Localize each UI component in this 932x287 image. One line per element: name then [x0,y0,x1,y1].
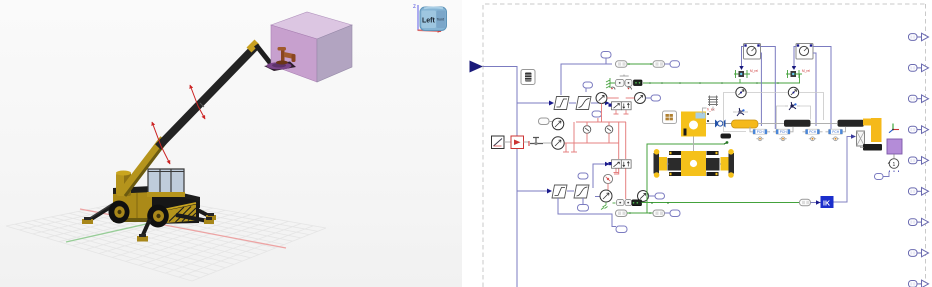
wheel node W4 [834,137,838,141]
connector oval g7o [655,193,665,199]
boom jib [256,45,271,64]
front wheel [147,205,169,228]
hand lever L1 [530,138,543,144]
wire S3 down to oval c4 [558,198,616,227]
directional valve DV1 [612,102,622,110]
ground body GBOX [887,139,902,154]
arrow into block S3 [547,189,552,194]
output port P2 [909,64,929,72]
wire G2 red [626,97,635,99]
outrigger rear-left arm [88,206,112,221]
outrigger front-left foot [137,236,148,242]
swash actuator JA2 [790,104,793,107]
cab sill [147,192,185,197]
diagram background [462,0,932,287]
green Y axis line [66,211,204,242]
vehicle chassis block VC1 [681,151,706,176]
output port P8 [909,249,929,257]
connector oval a1 [601,52,611,59]
filter block S4 [574,185,589,198]
speed gauge SG1 [736,87,746,97]
svg-text:M_rel: M_rel [802,69,810,73]
wire b2-b3 [665,63,671,65]
operator cab [148,169,184,194]
check valve CV2 [605,126,613,134]
output port P7 [909,218,929,226]
subsystem outline left col [724,93,789,132]
red wire lower row [566,118,626,159]
wheel motor M2 [796,44,813,60]
IK gain block [821,196,834,208]
tank symbol TK2 [613,202,616,204]
chassis front black face [152,192,199,224]
wire green b1-b2 [627,63,653,65]
wire L1-G3 [543,142,551,144]
filter block S2 [576,97,591,110]
svg-text:Left: Left [422,18,436,25]
data table block T1 [521,70,535,85]
wire R1-R2 [504,141,511,143]
red wire G1 to DV1 [602,98,619,122]
transfer oval b2 [653,61,665,68]
chassis black deck [113,186,200,208]
svg-text:M_rel: M_rel [750,69,758,73]
outrigger rear-right arm [188,205,211,217]
swash actuator JA1 [738,110,741,113]
svg-text:h_ex: h_ex [707,108,715,112]
boom lower yellow section [122,139,164,194]
force arrow pair 2 [190,85,198,106]
rotation gauge RG1 [889,159,899,169]
wheel node W2 [781,137,785,141]
DV1 tank stubs [614,110,629,114]
brake line bar LB1 [784,120,811,127]
check symbols under V1 [611,87,632,90]
purple box top face [271,12,352,39]
pm motor block V1m [634,80,643,86]
connector oval s3b [578,205,589,212]
output port P5 [909,157,929,165]
connector oval g2o [651,95,661,101]
svg-text:IK: IK [823,200,830,207]
connector oval s2a [583,82,593,88]
red wire DV2 to G5 [614,169,626,200]
wire HX to pump [703,107,714,115]
supply line LB [706,123,867,125]
wire IK up right [834,137,852,203]
svg-text:z: z [413,4,416,10]
3D view background [0,0,462,287]
pressure hose PCH2 [776,129,790,134]
output port P4 [909,126,929,134]
wire g4a-G4 [549,121,552,123]
diagram dashed border [483,4,926,287]
ground grid [6,197,326,281]
axes triad icon [892,124,894,130]
green vertical spine [646,144,648,214]
connector oval c4 [616,226,627,233]
left track bar [654,153,660,174]
speed gauge SG2 [788,87,798,97]
view cube z axis [417,5,419,30]
brake valve BV1 [734,73,750,75]
subsystem outline right col [777,93,824,132]
basket [281,49,285,62]
outrigger rear-right foot [206,215,216,220]
main pump MP1 [681,112,706,137]
wheel node W1 [758,137,762,141]
connector oval rgo [875,174,884,180]
green wire to vehicle [647,143,725,145]
wheel motor M1 [744,44,761,60]
ramp source R1 [492,136,505,149]
view cube x axis [418,30,442,31]
green wire c1-c2 [627,212,653,214]
transfer oval b1 [616,61,628,68]
transfer oval c1 [616,210,628,217]
brake valve BV2 [786,73,802,75]
wire G2 to oval [646,97,652,99]
red X axis line [80,209,286,248]
connector oval s2b [592,111,602,117]
platform rotator disk [264,62,296,72]
directional valve DV2 [612,160,622,168]
output port P9 [909,280,929,287]
tank block TB1 [863,144,882,151]
chassis left yellow face [113,192,152,221]
wire c2-c3 [665,212,671,214]
wire S3-S4 [567,190,574,192]
boom turret [116,172,131,196]
purple box front face [271,25,317,82]
pressure gauge G6 [600,190,612,202]
hose stubs [750,127,846,132]
flow gauge G2 [635,93,646,104]
wire S1 riser to ovals [561,58,612,95]
rear wheel [109,201,130,224]
right wheel unit [706,158,720,171]
pm motor block V2m [632,200,642,206]
flow gauge G3 [552,137,564,149]
outrigger front-right arm [176,215,208,221]
outrigger rear-left foot [82,219,93,224]
transfer oval ik1 [800,199,811,206]
wire R2-L1 [524,141,530,143]
green drops to supply [740,74,800,83]
connector oval b3 [670,61,680,68]
arrow into block S1 [549,101,554,106]
svg-text:PCH: PCH [832,130,839,134]
outrigger front-left arm [142,219,150,237]
svg-text:front: front [437,18,444,22]
force arrow pair 1 [152,122,161,146]
left wheel unit [668,158,682,171]
gearbox GB1 [663,111,677,124]
wire S4 to valve DV2 [593,164,605,188]
brake line bar LB2 [838,120,865,127]
svg-text:PCH: PCH [809,130,816,134]
boom tip yellow stripe [249,42,257,50]
output port P6 [909,188,929,196]
outrigger front-right foot [204,219,214,224]
pump unit V1 [616,80,625,87]
check valve G5 [603,174,612,183]
gear pump GP1 [715,120,726,128]
red gain block R2 [511,136,524,149]
relief valve frame [563,122,626,152]
heat exchanger HX1 [708,96,718,107]
purple box right face [317,25,352,82]
tank symbol TK1 [606,78,610,88]
wire pump down to vehicle [693,137,695,162]
suction pipe SP1 [863,119,872,126]
input port In1 [470,61,484,73]
rate limiter S1 [554,97,569,110]
output port P1 [909,33,929,41]
accumulator ACC1 [732,120,759,128]
wire oval to IK [811,202,821,204]
svg-text:PCH: PCH [757,130,764,134]
pump unit V2 [617,200,625,206]
boom main black section [158,46,256,147]
green wire bottom row [642,202,800,204]
wire loops M2 [794,47,831,130]
wire G7 to oval [649,195,656,197]
wire input to branches [483,67,549,287]
right track bar [729,153,735,174]
wire loops M1 [742,47,776,130]
tank under G6 [603,202,607,207]
view cube [420,7,447,31]
output port P3 [909,95,929,103]
wire G6 left stub [595,196,600,198]
flow gauge G7 [638,191,649,202]
check valve CV1 [583,126,591,134]
return line filter RF1 [721,134,732,139]
pressure hose PCH4 [829,129,843,134]
flow gauge G4 [552,118,564,130]
wire G3 red to relief box [565,142,577,144]
svg-text:PCH: PCH [780,130,787,134]
pressure hose PCH3 [806,129,820,134]
rate limiter S3 [552,185,567,198]
front bumper yellow striped [166,205,196,224]
connector oval c3 [670,210,680,217]
pressure hose PCH1 [753,129,767,134]
tank filter TF1 [857,131,865,146]
connector oval s3a [578,173,588,179]
transfer oval g4a [539,118,550,125]
green supply wire [610,82,800,84]
flow gauge G1 [596,93,607,104]
transfer oval c2 [653,210,665,217]
wire S2 to valve V2pilot [591,102,605,104]
svg-text:1: 1 [893,162,896,168]
wire S1-S2 [569,102,576,104]
DV2 tank stubs [614,169,619,173]
wheel node W3 [811,137,815,141]
